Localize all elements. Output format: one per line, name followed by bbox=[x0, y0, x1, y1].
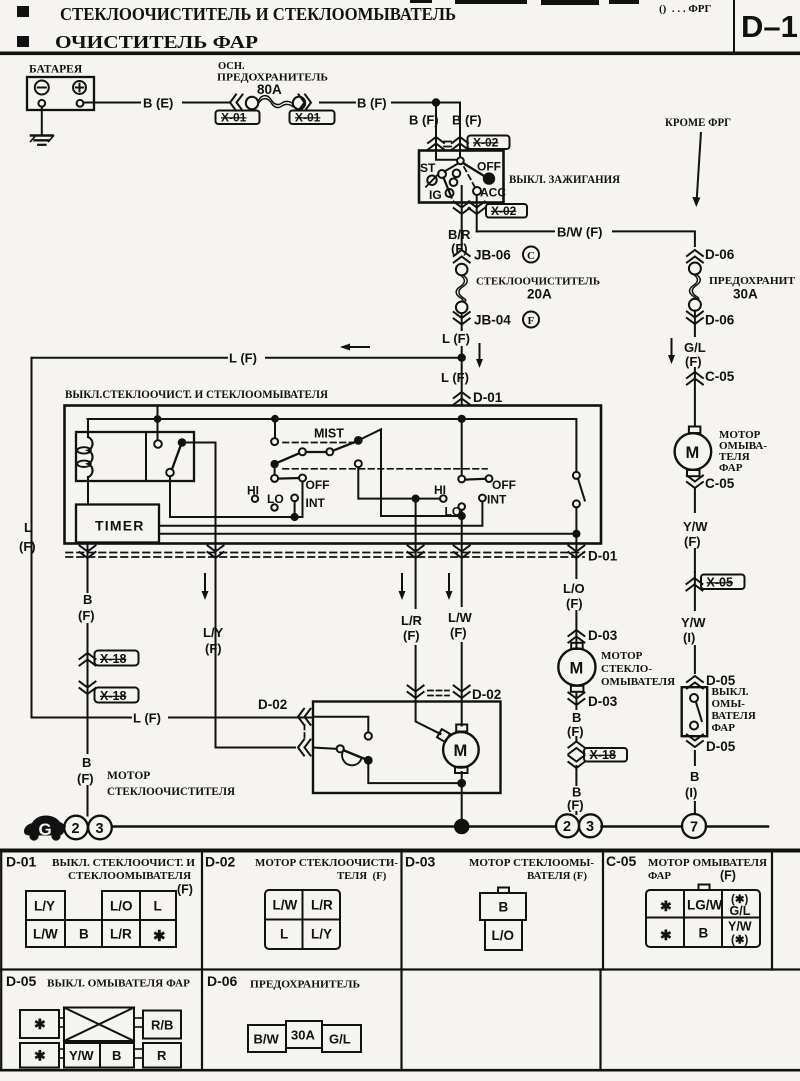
svg-text:ВЫКЛ.: ВЫКЛ. bbox=[712, 686, 749, 698]
relay coil bbox=[77, 419, 92, 505]
svg-text:МОТОР: МОТОР bbox=[107, 770, 150, 782]
svg-text:X-18: X-18 bbox=[100, 689, 126, 703]
dashed line lower bbox=[283, 468, 487, 470]
connector box X-01 right bbox=[290, 111, 335, 125]
ignition contact circle c bbox=[450, 178, 458, 186]
wire relay moving down bbox=[170, 476, 292, 517]
wiper motor box D-02 bbox=[313, 702, 501, 794]
svg-text:(F): (F) bbox=[403, 628, 420, 643]
svg-text:X-01: X-01 bbox=[221, 111, 247, 125]
svg-text:IG: IG bbox=[429, 188, 442, 202]
wire L(F) bottom horizontal bbox=[32, 717, 314, 719]
ignition contact circle a bbox=[438, 170, 446, 178]
svg-text:МОТОР СТЕКЛООМЫ-: МОТОР СТЕКЛООМЫ- bbox=[469, 857, 594, 869]
svg-text:БАТАРЕЯ: БАТАРЕЯ bbox=[29, 64, 83, 76]
svg-text:M: M bbox=[570, 660, 584, 678]
park lever bbox=[344, 750, 366, 759]
svg-text:TIMER: TIMER bbox=[95, 518, 145, 534]
svg-text:B (F): B (F) bbox=[409, 113, 439, 128]
svg-text:✱: ✱ bbox=[153, 928, 166, 945]
wire L(F) far left vertical bbox=[31, 358, 33, 718]
svg-text:C-05: C-05 bbox=[705, 369, 735, 384]
svg-text:LO: LO bbox=[267, 492, 284, 506]
svg-text:7: 7 bbox=[690, 820, 698, 836]
svg-text:L/Y: L/Y bbox=[311, 927, 332, 942]
connector pinout D-06 bbox=[248, 1021, 361, 1052]
table grid lines bbox=[1, 852, 772, 1070]
connector D-02 left chevrons bbox=[298, 709, 311, 725]
node mist feed bbox=[272, 416, 278, 422]
wiper motor M bbox=[416, 722, 479, 774]
headlamp washer motor M bbox=[675, 427, 712, 477]
connector box X-02 bottom bbox=[486, 204, 527, 218]
connector D-03 top chevrons bbox=[568, 630, 584, 643]
contact MIST left bbox=[271, 438, 278, 445]
wire to relay contact bbox=[157, 419, 159, 440]
wire B(F) down right branch bbox=[459, 103, 461, 158]
svg-text:HI: HI bbox=[247, 484, 259, 498]
relay divider bbox=[145, 432, 147, 481]
wire timer bottom out bbox=[87, 543, 89, 544]
ignition IG contact circle bbox=[446, 189, 454, 197]
svg-text:(I): (I) bbox=[683, 630, 695, 645]
svg-text:INT: INT bbox=[487, 493, 507, 507]
wire Y/W down bbox=[694, 489, 696, 572]
connector D-05 bottom chevrons bbox=[687, 735, 703, 748]
wire B(E) battery to fuse bbox=[83, 102, 229, 104]
wire B(F) down left branch bbox=[436, 103, 457, 160]
connector pinout D-02 bbox=[265, 890, 340, 949]
svg-text:L: L bbox=[24, 520, 32, 535]
svg-text:ACC: ACC bbox=[480, 186, 506, 200]
fuse wiper 20A bbox=[456, 264, 468, 313]
svg-text:L/O: L/O bbox=[492, 928, 515, 943]
ground car icon G bbox=[24, 816, 65, 841]
ignition switch box bbox=[419, 151, 504, 203]
node timer washer bbox=[573, 531, 579, 537]
wire L/Y column bbox=[216, 544, 296, 748]
wire L/O column bbox=[575, 544, 577, 625]
contact INT left bbox=[291, 495, 298, 502]
scan artifact marks top edge bbox=[410, 0, 639, 5]
svg-text:МОТОР СТЕКЛООЧИСТИ-: МОТОР СТЕКЛООЧИСТИ- bbox=[255, 857, 398, 869]
node LR out bbox=[413, 496, 419, 502]
svg-text:LG/W: LG/W bbox=[687, 898, 722, 913]
ground symbol bbox=[31, 136, 54, 145]
svg-text:(F): (F) bbox=[566, 596, 583, 611]
node LW bbox=[459, 513, 465, 519]
svg-text:D–1: D–1 bbox=[741, 9, 798, 44]
svg-text:(F): (F) bbox=[77, 771, 94, 786]
svg-text:G/L: G/L bbox=[730, 904, 751, 918]
park cam arc bbox=[342, 753, 361, 766]
svg-text:R: R bbox=[157, 1048, 167, 1063]
arrow down LY bbox=[202, 574, 209, 600]
svg-text:D-05: D-05 bbox=[6, 973, 37, 989]
svg-text:B (E): B (E) bbox=[143, 96, 173, 111]
svg-text:20A: 20A bbox=[527, 287, 552, 302]
junction node L bbox=[459, 355, 465, 361]
svg-text:G/L: G/L bbox=[684, 340, 706, 355]
contact HI right bbox=[440, 495, 447, 502]
arrow down at node bbox=[476, 344, 483, 368]
svg-text:M: M bbox=[454, 742, 468, 760]
header rule bbox=[0, 52, 800, 56]
hw switch bottom contact bbox=[690, 722, 698, 730]
headlamp washer switch box bbox=[682, 687, 708, 736]
wire G/L down bbox=[694, 311, 696, 426]
arrow down LR bbox=[399, 574, 406, 600]
svg-text:L: L bbox=[154, 899, 162, 914]
svg-text:(F): (F) bbox=[78, 608, 95, 623]
connector box X-18 no1 bbox=[95, 651, 139, 667]
svg-text:B/W (F): B/W (F) bbox=[557, 225, 602, 240]
svg-text:B: B bbox=[82, 755, 91, 770]
svg-text:C: C bbox=[527, 250, 535, 262]
svg-text:(F): (F) bbox=[684, 534, 701, 549]
svg-text:ПРЕДОХРАНИТЕЛЬ: ПРЕДОХРАНИТЕЛЬ bbox=[250, 979, 360, 991]
svg-text:G: G bbox=[39, 820, 52, 839]
svg-text:L/R: L/R bbox=[110, 927, 132, 942]
connector chevrons X-01 left bbox=[230, 95, 243, 111]
svg-text:ТЕЛЯ (F): ТЕЛЯ (F) bbox=[337, 870, 387, 882]
svg-text:МОТОР ОМЫВАТЕЛЯ: МОТОР ОМЫВАТЕЛЯ bbox=[648, 857, 767, 869]
ignition lever to OFF bbox=[463, 163, 485, 177]
svg-text:L (F): L (F) bbox=[442, 331, 470, 346]
relay lever bbox=[172, 446, 181, 469]
connector box X-18 no2 bbox=[95, 688, 139, 704]
contact park pivot bbox=[337, 745, 344, 752]
connector C-05 bottom chevrons bbox=[687, 476, 703, 489]
svg-text:R/B: R/B bbox=[151, 1018, 173, 1033]
svg-text:JB-06: JB-06 bbox=[474, 248, 511, 263]
svg-text:ПРЕДОХРАНИТ: ПРЕДОХРАНИТ bbox=[709, 275, 796, 287]
wire B/W to right column bbox=[477, 231, 695, 246]
svg-text:B/W: B/W bbox=[254, 1032, 280, 1047]
svg-text:L/R: L/R bbox=[311, 898, 333, 913]
wire washer B down bbox=[575, 692, 577, 814]
svg-text:B: B bbox=[699, 926, 709, 941]
svg-text:ФАР: ФАР bbox=[719, 462, 743, 474]
wire LO out down bbox=[575, 507, 577, 543]
wire interior top horizontal bbox=[88, 419, 577, 472]
svg-text:D-02: D-02 bbox=[205, 854, 236, 870]
wiper washer switch box bbox=[65, 406, 602, 544]
svg-text:B: B bbox=[499, 900, 509, 915]
connector D-01 top chevrons bbox=[454, 392, 470, 405]
ignition contact circle b bbox=[453, 170, 461, 178]
wire to OFF left riser bbox=[295, 482, 303, 518]
arrow except FRG bbox=[692, 133, 701, 207]
svg-text:OFF: OFF bbox=[306, 478, 330, 492]
contact HI left bbox=[252, 496, 258, 502]
svg-text:ВЫКЛ. ОМЫВАТЕЛЯ ФАР: ВЫКЛ. ОМЫВАТЕЛЯ ФАР bbox=[47, 978, 190, 990]
svg-text:L/Y: L/Y bbox=[34, 899, 55, 914]
wire B I down bbox=[694, 751, 696, 814]
svg-text:B (F): B (F) bbox=[452, 113, 482, 128]
wire relay out to LY column bbox=[182, 443, 216, 544]
svg-text:ФАР: ФАР bbox=[648, 870, 671, 882]
relay moving contact bbox=[166, 469, 174, 477]
svg-text:D-01: D-01 bbox=[473, 390, 503, 405]
svg-text:ВЫКЛ.СТЕКЛООЧИСТ. И СТЕКЛООМЫВ: ВЫКЛ.СТЕКЛООЧИСТ. И СТЕКЛООМЫВАТЕЛЯ bbox=[65, 389, 329, 401]
wire ACC output down bbox=[476, 195, 478, 231]
svg-text:L/W: L/W bbox=[273, 898, 298, 913]
contact sweep circle bbox=[355, 460, 362, 467]
contact park upper bbox=[365, 732, 372, 739]
svg-text:() . . . ФРГ: () . . . ФРГ bbox=[659, 3, 712, 15]
svg-text:G/L: G/L bbox=[329, 1032, 351, 1047]
connector D-03 bottom chevrons bbox=[568, 693, 584, 706]
svg-text:X-18: X-18 bbox=[590, 748, 616, 762]
svg-text:✱: ✱ bbox=[34, 1016, 46, 1032]
svg-text:ОМЫВАТЕЛЯ: ОМЫВАТЕЛЯ bbox=[601, 676, 675, 688]
svg-text:ST: ST bbox=[420, 161, 436, 175]
arrow left bbox=[340, 344, 369, 351]
svg-text:ВЫКЛ. ЗАЖИГАНИЯ: ВЫКЛ. ЗАЖИГАНИЯ bbox=[509, 174, 621, 186]
connector X-18 no2 chevrons bbox=[80, 682, 96, 695]
svg-text:(F): (F) bbox=[19, 539, 36, 554]
svg-text:C-05: C-05 bbox=[705, 476, 735, 491]
connector X-18 washer chevrons bbox=[568, 742, 584, 755]
connector D-02 left dashes bbox=[304, 725, 306, 740]
svg-text:D-03: D-03 bbox=[588, 628, 618, 643]
header bullet 2 bbox=[17, 36, 29, 47]
svg-text:D-02: D-02 bbox=[258, 697, 287, 712]
svg-text:D-01: D-01 bbox=[6, 854, 37, 870]
svg-text:КРОМЕ ФРГ: КРОМЕ ФРГ bbox=[665, 117, 731, 129]
connector D-06 bottom chevrons bbox=[687, 312, 703, 325]
dashed line mist bbox=[283, 442, 352, 444]
ignition ACC contact circle bbox=[473, 187, 481, 195]
washer switch bottom contact bbox=[573, 500, 580, 507]
connector X-05 chevrons bbox=[686, 578, 702, 591]
connector box X-02 top bbox=[468, 136, 510, 150]
connector C-05 top chevrons bbox=[687, 372, 703, 385]
svg-text:L: L bbox=[280, 927, 288, 942]
wire Y/W I down bbox=[694, 572, 696, 673]
wire timer to washer switch bbox=[159, 533, 576, 535]
arrow down LW bbox=[446, 574, 453, 600]
ground big dot bbox=[455, 820, 469, 834]
svg-text:B/R: B/R bbox=[448, 227, 471, 242]
stub mist contact bbox=[274, 419, 276, 438]
connector X-02 bottom chevrons bbox=[454, 202, 470, 215]
lever off left bbox=[278, 477, 299, 480]
connector D-02 dashes bbox=[428, 691, 449, 696]
svg-text:B: B bbox=[112, 1048, 121, 1063]
connector X-02 dash marks bbox=[444, 142, 451, 147]
hw switch lever bbox=[696, 702, 702, 721]
ignition dashed arm to ACC bbox=[464, 167, 475, 187]
contact OFF right left bbox=[458, 476, 465, 483]
svg-text:(F): (F) bbox=[720, 869, 736, 883]
ignition switch pivot bbox=[457, 157, 464, 164]
wire L down to box bbox=[461, 313, 463, 406]
relay fixed contact bbox=[154, 440, 162, 448]
svg-text:F: F bbox=[528, 315, 535, 327]
ground circle 3 left bbox=[88, 816, 112, 840]
svg-text:(✱): (✱) bbox=[731, 935, 748, 947]
svg-text:JB-04: JB-04 bbox=[474, 313, 511, 328]
connector pinout C-05 bbox=[646, 885, 760, 948]
svg-text:Y/W: Y/W bbox=[728, 920, 752, 934]
svg-text:L (F): L (F) bbox=[133, 711, 161, 726]
wire B(F) fuse to ignition bbox=[320, 102, 460, 104]
contact OFF left lower pair bbox=[271, 475, 278, 482]
svg-text:Y/W: Y/W bbox=[683, 519, 708, 534]
node relay top bbox=[155, 416, 161, 422]
svg-text:ФАР: ФАР bbox=[712, 722, 736, 734]
connector box X-18 washer bbox=[584, 748, 627, 762]
node motor ground bbox=[458, 780, 465, 787]
svg-text:ОСН.: ОСН. bbox=[218, 61, 245, 72]
contact LO right bbox=[458, 503, 465, 510]
connector pinout D-03 bbox=[480, 888, 526, 951]
ignition OFF contact dot bbox=[484, 173, 494, 183]
svg-text:✱: ✱ bbox=[34, 1048, 46, 1064]
ground bus line bbox=[58, 825, 768, 828]
wire LW down bbox=[461, 510, 463, 544]
svg-text:INT: INT bbox=[306, 496, 326, 510]
wire LR down bbox=[415, 499, 417, 544]
svg-text:СТЕКЛО-: СТЕКЛО- bbox=[601, 663, 652, 675]
svg-text:D-03: D-03 bbox=[405, 854, 436, 870]
svg-text:B: B bbox=[690, 769, 699, 784]
wire L/R column bbox=[416, 544, 441, 735]
wire mist out riser bbox=[358, 429, 458, 516]
wire IG output down bbox=[461, 186, 463, 248]
wire B left column bbox=[87, 544, 89, 816]
svg-text:(F): (F) bbox=[685, 354, 702, 369]
connector pinout D-05 bbox=[20, 1008, 181, 1068]
svg-text:(F): (F) bbox=[177, 883, 193, 897]
svg-text:L/W: L/W bbox=[33, 927, 58, 942]
svg-text:МОТОР: МОТОР bbox=[601, 650, 643, 662]
svg-text:Y/W: Y/W bbox=[69, 1048, 94, 1063]
connector pinout D-01 bbox=[26, 891, 176, 947]
svg-text:OFF: OFF bbox=[477, 160, 501, 174]
hw switch top contact bbox=[690, 694, 698, 702]
park lever dot bbox=[365, 757, 372, 764]
connector box X-05 bbox=[701, 575, 745, 590]
svg-text:MIST: MIST bbox=[314, 427, 344, 441]
washer switch lever bbox=[578, 479, 585, 501]
svg-text:ВАТЕЛЯ: ВАТЕЛЯ bbox=[712, 710, 756, 722]
fuse 30A right bbox=[689, 263, 701, 311]
svg-text:(F): (F) bbox=[567, 724, 584, 739]
svg-text:(F): (F) bbox=[450, 625, 467, 640]
svg-text:C-05: C-05 bbox=[606, 853, 637, 869]
stub to box edge bbox=[157, 406, 159, 420]
svg-text:30A: 30A bbox=[733, 287, 758, 302]
header bullet 1 bbox=[17, 6, 29, 17]
contact OFF left upper bbox=[299, 475, 306, 482]
svg-text:B: B bbox=[79, 927, 89, 942]
connector box X-01 left bbox=[216, 111, 260, 125]
wire motor ground down bbox=[461, 772, 463, 820]
svg-text:✱: ✱ bbox=[660, 898, 672, 914]
svg-text:80A: 80A bbox=[257, 82, 282, 97]
svg-text:3: 3 bbox=[96, 821, 104, 837]
svg-text:D-06: D-06 bbox=[207, 973, 238, 989]
washer motor M bbox=[558, 643, 595, 692]
svg-text:L/Y: L/Y bbox=[203, 625, 224, 640]
svg-text:СТЕКЛООЧИСТИТЕЛЯ: СТЕКЛООЧИСТИТЕЛЯ bbox=[107, 786, 236, 798]
svg-text:M: M bbox=[686, 444, 700, 462]
svg-text:L/R: L/R bbox=[401, 613, 423, 628]
svg-text:D-06: D-06 bbox=[705, 313, 735, 328]
svg-text:2: 2 bbox=[72, 821, 80, 837]
svg-text:СТЕКЛООЧИСТИТЕЛЬ И СТЕКЛООМЫВА: СТЕКЛООЧИСТИТЕЛЬ И СТЕКЛООМЫВАТЕЛЬ bbox=[60, 4, 456, 24]
wire L entry upper bbox=[313, 717, 368, 732]
connector D-05 top chevrons bbox=[687, 676, 703, 689]
svg-text:✱: ✱ bbox=[660, 927, 672, 943]
svg-text:(I): (I) bbox=[685, 785, 697, 800]
mist lever chain bbox=[271, 437, 361, 475]
svg-text:OFF: OFF bbox=[492, 478, 516, 492]
svg-text:B (F): B (F) bbox=[357, 96, 387, 111]
svg-text:B: B bbox=[572, 710, 581, 725]
page box divider bbox=[733, 0, 735, 53]
contact OFF right right bbox=[486, 475, 493, 482]
connector X-18 no1 chevrons bbox=[80, 653, 96, 666]
junction node bbox=[433, 99, 439, 105]
connector D-01 boundary dashed lines bbox=[66, 553, 584, 558]
svg-text:L/O: L/O bbox=[110, 899, 133, 914]
battery B1 bbox=[27, 77, 94, 110]
svg-text:X-02: X-02 bbox=[491, 204, 517, 218]
connector JB-04 chevrons bbox=[454, 312, 470, 325]
svg-text:(F): (F) bbox=[205, 641, 222, 656]
timer box bbox=[76, 505, 159, 543]
svg-text:L (F): L (F) bbox=[441, 370, 469, 385]
svg-text:ОМЫ-: ОМЫ- bbox=[712, 698, 746, 710]
connector D-01 bottom chevrons bbox=[80, 546, 96, 559]
connector D-06 top chevrons bbox=[687, 250, 703, 263]
wire LY entry lower bbox=[313, 748, 337, 749]
svg-text:D-05: D-05 bbox=[706, 739, 736, 754]
svg-text:30A: 30A bbox=[291, 1028, 315, 1043]
node L entry bbox=[459, 416, 465, 422]
svg-text:B: B bbox=[83, 592, 92, 607]
svg-text:L (F): L (F) bbox=[229, 351, 257, 366]
svg-text:X-02: X-02 bbox=[473, 136, 499, 150]
battery ground wire bbox=[41, 107, 43, 135]
svg-text:HI: HI bbox=[434, 483, 446, 497]
svg-text:D-06: D-06 bbox=[705, 247, 735, 262]
wire L(F) long to left bbox=[32, 357, 462, 359]
wire L entry down to OFF bbox=[461, 419, 463, 476]
svg-text:(F): (F) bbox=[567, 798, 584, 813]
wire park to motor ground bbox=[368, 760, 461, 783]
connector D-02 top chevrons bbox=[408, 686, 424, 699]
svg-text:СТЕКЛООМЫВАТЕЛЯ: СТЕКЛООМЫВАТЕЛЯ bbox=[68, 870, 191, 882]
svg-text:2: 2 bbox=[563, 819, 571, 835]
wire sweep to HI bbox=[358, 467, 440, 498]
svg-text:D-02: D-02 bbox=[472, 687, 501, 702]
svg-text:Y/W: Y/W bbox=[681, 615, 706, 630]
connector JB-06 chevrons bbox=[454, 250, 470, 263]
table top rule bbox=[0, 849, 800, 853]
ground circle 2 mid bbox=[556, 814, 579, 837]
lever OFF right bbox=[465, 478, 485, 481]
svg-text:X-01: X-01 bbox=[295, 111, 321, 125]
svg-text:X-05: X-05 bbox=[707, 576, 733, 590]
connector chevrons X-01 right bbox=[299, 95, 312, 111]
ground circle 7 bbox=[682, 814, 706, 838]
ground circle 3 mid bbox=[579, 814, 602, 837]
